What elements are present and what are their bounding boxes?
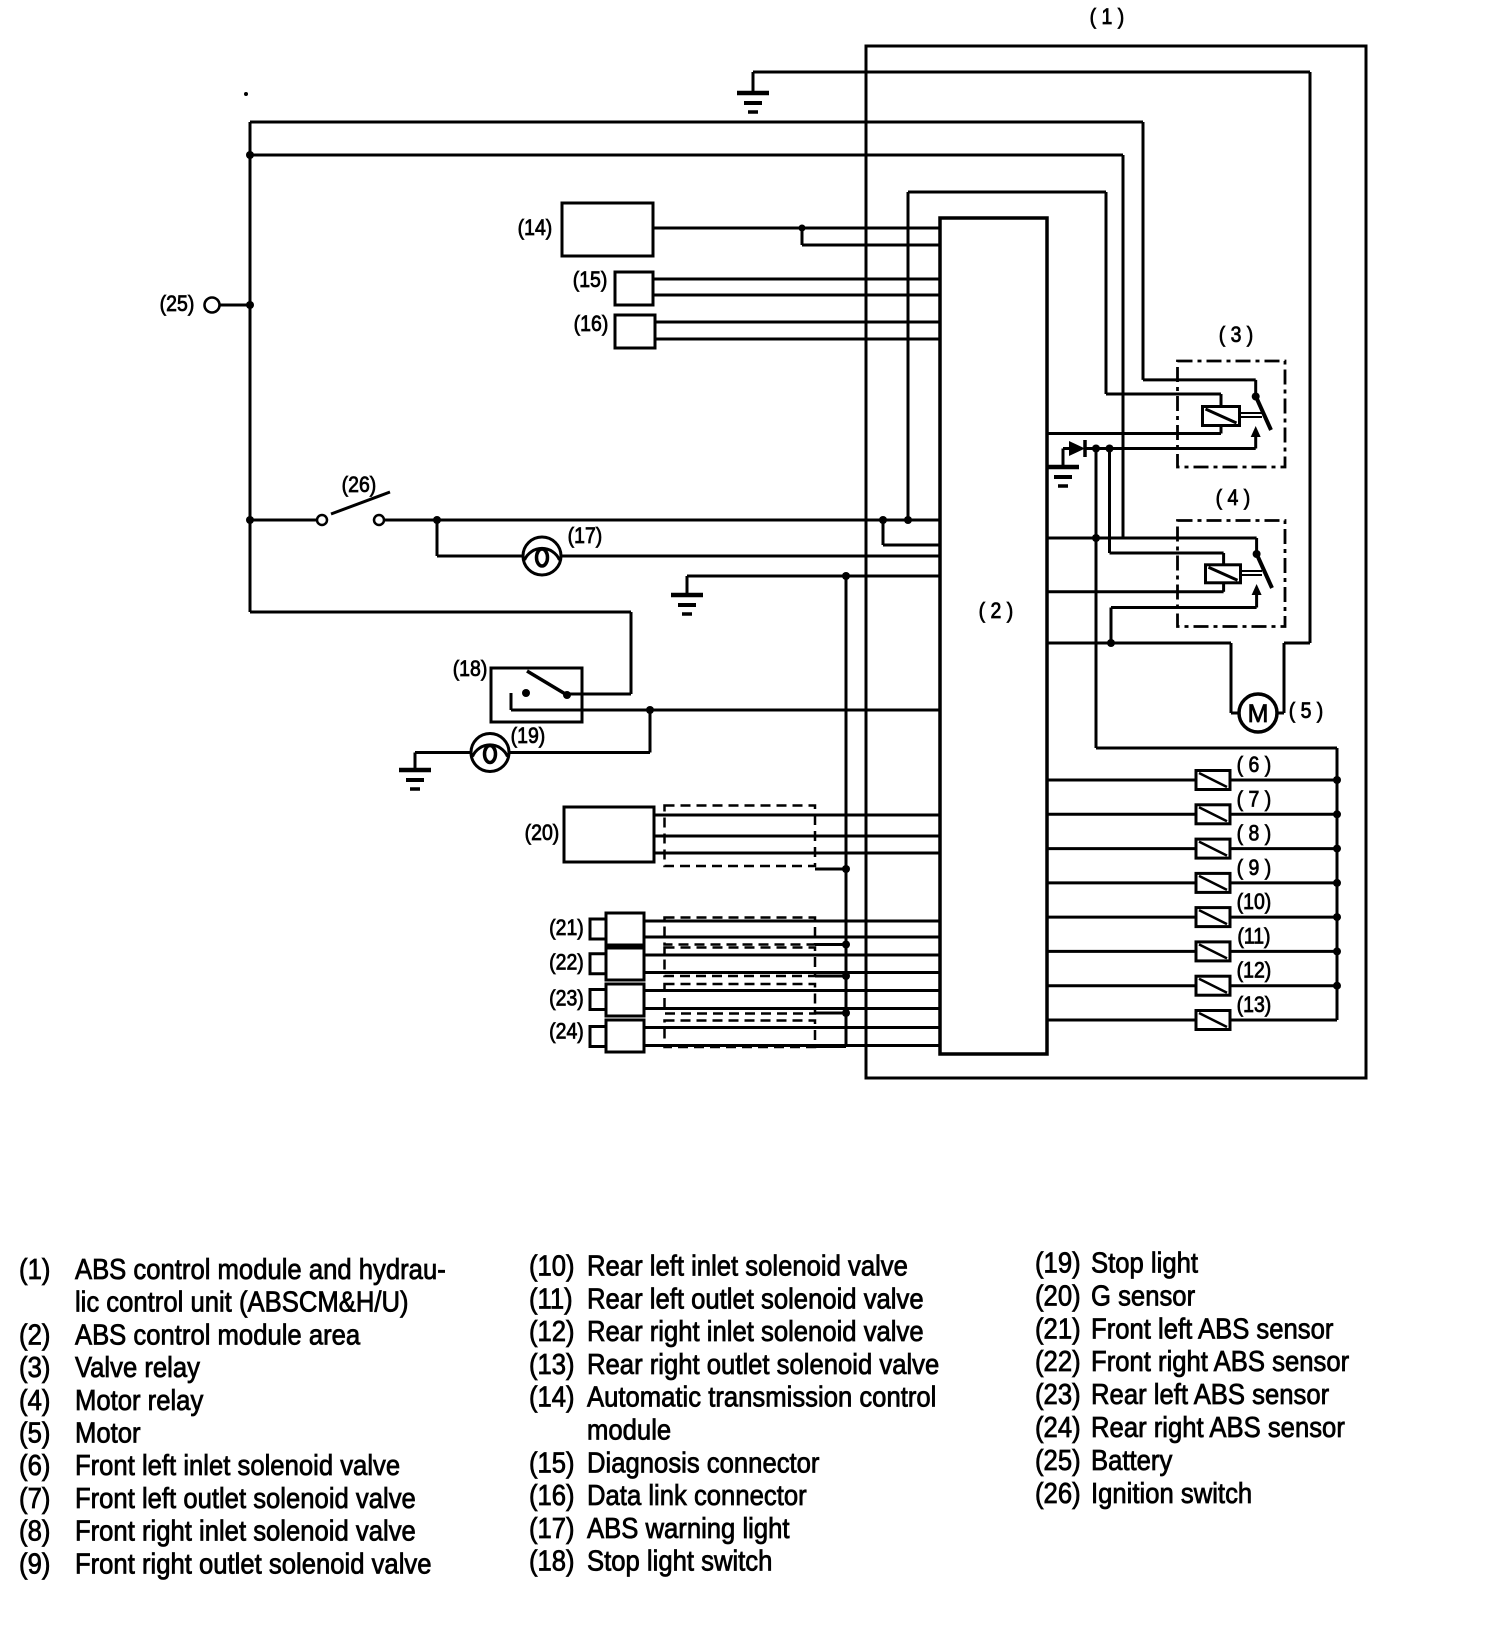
svg-text:( 3 ): ( 3 ) bbox=[1219, 323, 1254, 347]
svg-text:(18): (18) bbox=[529, 1544, 575, 1577]
svg-text:(20): (20) bbox=[525, 821, 560, 845]
svg-text:Front left inlet solenoid valv: Front left inlet solenoid valve bbox=[75, 1449, 400, 1482]
svg-text:(1): (1) bbox=[19, 1253, 50, 1286]
svg-text:(6): (6) bbox=[19, 1449, 50, 1482]
svg-text:Ignition switch: Ignition switch bbox=[1091, 1476, 1252, 1509]
svg-text:(15): (15) bbox=[573, 268, 608, 292]
svg-text:(14): (14) bbox=[529, 1380, 575, 1413]
svg-text:Data link connector: Data link connector bbox=[587, 1479, 807, 1512]
svg-text:(3): (3) bbox=[19, 1351, 50, 1384]
svg-text:(13): (13) bbox=[1237, 993, 1272, 1017]
svg-text:( 9 ): ( 9 ) bbox=[1237, 856, 1272, 880]
svg-text:(13): (13) bbox=[529, 1347, 575, 1380]
svg-text:(16): (16) bbox=[529, 1479, 575, 1512]
svg-text:(17): (17) bbox=[529, 1511, 575, 1544]
svg-text:(18): (18) bbox=[453, 657, 488, 681]
svg-text:(12): (12) bbox=[529, 1315, 575, 1348]
svg-text:(16): (16) bbox=[574, 312, 609, 336]
svg-text:(4): (4) bbox=[19, 1383, 50, 1416]
svg-text:Valve relay: Valve relay bbox=[75, 1351, 200, 1384]
svg-text:(22): (22) bbox=[1035, 1345, 1081, 1378]
svg-text:Stop light switch: Stop light switch bbox=[587, 1544, 772, 1577]
svg-text:Motor relay: Motor relay bbox=[75, 1383, 204, 1416]
svg-text:(12): (12) bbox=[1237, 959, 1272, 983]
svg-text:Rear right inlet solenoid valv: Rear right inlet solenoid valve bbox=[587, 1315, 924, 1348]
svg-text:(20): (20) bbox=[1035, 1279, 1081, 1312]
svg-text:M: M bbox=[1248, 700, 1269, 728]
svg-text:Front left ABS sensor: Front left ABS sensor bbox=[1091, 1312, 1333, 1345]
svg-text:(11): (11) bbox=[529, 1282, 573, 1315]
svg-text:Front right outlet solenoid va: Front right outlet solenoid valve bbox=[75, 1547, 432, 1580]
svg-text:Battery: Battery bbox=[1091, 1443, 1173, 1476]
svg-text:(19): (19) bbox=[1035, 1246, 1081, 1279]
svg-text:Diagnosis connector: Diagnosis connector bbox=[587, 1446, 819, 1479]
svg-text:(23): (23) bbox=[549, 986, 584, 1010]
svg-text:(2): (2) bbox=[19, 1318, 50, 1351]
svg-text:(22): (22) bbox=[549, 950, 584, 974]
svg-text:Front right inlet solenoid val: Front right inlet solenoid valve bbox=[75, 1514, 416, 1547]
svg-text:(21): (21) bbox=[1035, 1312, 1081, 1345]
svg-text:( 1 ): ( 1 ) bbox=[1090, 5, 1125, 29]
svg-text:(25): (25) bbox=[160, 292, 195, 316]
svg-text:Rear right ABS sensor: Rear right ABS sensor bbox=[1091, 1411, 1345, 1444]
svg-text:( 2 ): ( 2 ) bbox=[979, 599, 1014, 623]
svg-text:(23): (23) bbox=[1035, 1378, 1081, 1411]
svg-text:(17): (17) bbox=[568, 524, 603, 548]
svg-text:(10): (10) bbox=[1237, 890, 1272, 914]
svg-text:G sensor: G sensor bbox=[1091, 1279, 1195, 1312]
svg-text:Rear right outlet solenoid val: Rear right outlet solenoid valve bbox=[587, 1347, 939, 1380]
svg-text:Front left outlet solenoid val: Front left outlet solenoid valve bbox=[75, 1481, 416, 1514]
svg-text:ABS warning light: ABS warning light bbox=[587, 1511, 790, 1544]
svg-text:(10): (10) bbox=[529, 1249, 575, 1282]
svg-text:module: module bbox=[587, 1413, 671, 1446]
svg-text:(21): (21) bbox=[549, 916, 584, 940]
svg-text:Automatic transmission control: Automatic transmission control bbox=[587, 1380, 936, 1413]
svg-text:(9): (9) bbox=[19, 1547, 50, 1580]
svg-text:( 4 ): ( 4 ) bbox=[1216, 486, 1251, 510]
svg-text:Rear left outlet solenoid valv: Rear left outlet solenoid valve bbox=[587, 1282, 924, 1315]
svg-text:(26): (26) bbox=[342, 473, 377, 497]
svg-text:(11): (11) bbox=[1237, 924, 1270, 948]
svg-text:ABS control module area: ABS control module area bbox=[75, 1318, 361, 1351]
svg-text:(14): (14) bbox=[518, 216, 553, 240]
svg-text:(19): (19) bbox=[511, 724, 546, 748]
svg-text:(7): (7) bbox=[19, 1481, 50, 1514]
svg-text:( 7 ): ( 7 ) bbox=[1237, 787, 1272, 811]
svg-text:Front right ABS sensor: Front right ABS sensor bbox=[1091, 1345, 1349, 1378]
svg-text:Stop light: Stop light bbox=[1091, 1246, 1198, 1279]
svg-text:(5): (5) bbox=[19, 1416, 50, 1449]
svg-text:(24): (24) bbox=[549, 1019, 584, 1043]
svg-text:(26): (26) bbox=[1035, 1476, 1081, 1509]
svg-text:Rear left ABS sensor: Rear left ABS sensor bbox=[1091, 1378, 1329, 1411]
svg-text:(8): (8) bbox=[19, 1514, 50, 1547]
svg-text:( 8 ): ( 8 ) bbox=[1237, 822, 1272, 846]
svg-text:(15): (15) bbox=[529, 1446, 575, 1479]
svg-text:ABS control module and hydrau-: ABS control module and hydrau- bbox=[75, 1253, 446, 1286]
svg-text:Rear left inlet solenoid valve: Rear left inlet solenoid valve bbox=[587, 1249, 908, 1282]
svg-text:(24): (24) bbox=[1035, 1411, 1081, 1444]
svg-text:( 5 ): ( 5 ) bbox=[1289, 699, 1324, 723]
svg-text:(25): (25) bbox=[1035, 1443, 1081, 1476]
svg-text:Motor: Motor bbox=[75, 1416, 141, 1449]
svg-text:lic control unit (ABSCM&H/U): lic control unit (ABSCM&H/U) bbox=[75, 1285, 409, 1318]
svg-text:( 6 ): ( 6 ) bbox=[1237, 753, 1272, 777]
